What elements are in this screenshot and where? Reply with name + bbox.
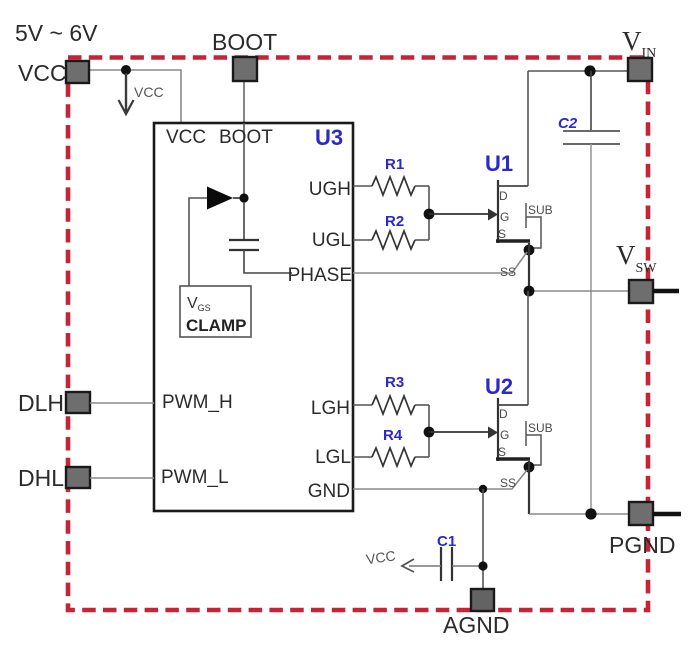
svg-text:U2: U2 <box>485 374 513 399</box>
wire DLH to U3 <box>90 402 154 404</box>
resistor R3 <box>372 374 429 414</box>
svg-text:SS: SS <box>500 476 516 490</box>
pad VCC <box>66 61 89 83</box>
node VCC junction <box>121 65 131 75</box>
svg-text:UGL: UGL <box>312 230 351 251</box>
svg-text:C2: C2 <box>558 115 578 132</box>
pad VIN <box>628 58 652 81</box>
svg-text:GND: GND <box>308 481 350 502</box>
power arrow VCC (down) <box>119 73 164 114</box>
wire UGL lead <box>353 239 372 241</box>
pad DHL <box>66 467 90 488</box>
svg-text:BOOT: BOOT <box>219 127 273 148</box>
svg-text:SUB: SUB <box>528 203 553 217</box>
wire PHASE to SS <box>353 252 527 273</box>
substrate bracket U2 SUB <box>526 421 553 465</box>
svg-text:G: G <box>500 428 509 442</box>
svg-text:C1: C1 <box>437 533 456 550</box>
pad AGND <box>471 589 494 611</box>
svg-text:PHASE: PHASE <box>288 265 352 286</box>
pad DLH <box>66 392 90 413</box>
svg-text:S: S <box>498 445 506 459</box>
node gate U1 junction <box>424 209 435 220</box>
wire U1 source to VSW <box>528 243 530 291</box>
wire GND to SS (U2) <box>353 470 527 489</box>
svg-text:PWM_H: PWM_H <box>162 392 233 413</box>
svg-text:VCC: VCC <box>166 127 206 148</box>
svg-text:BOOT: BOOT <box>212 29 277 55</box>
capacitor C2 <box>558 71 620 514</box>
pad VSW <box>629 280 653 303</box>
wire R3-R4 join vertical <box>428 405 430 457</box>
svg-text:AGND: AGND <box>443 612 509 638</box>
svg-text:R1: R1 <box>385 156 404 173</box>
svg-text:CLAMP: CLAMP <box>186 316 246 335</box>
resistor R2 <box>372 213 429 249</box>
svg-text:R2: R2 <box>385 213 404 230</box>
svg-text:PGND: PGND <box>609 532 675 558</box>
svg-text:PWM_L: PWM_L <box>161 467 229 488</box>
svg-text:G: G <box>500 210 509 224</box>
svg-text:5V ~ 6V: 5V ~ 6V <box>15 20 98 46</box>
svg-text:D: D <box>499 189 508 203</box>
boundary: red dashed board outline <box>68 58 648 611</box>
svg-text:DHL: DHL <box>18 465 64 491</box>
capacitor C1 <box>409 533 483 581</box>
wire BOOT internal <box>243 123 245 198</box>
wire triangle input <box>189 198 207 286</box>
wire LGL lead <box>353 456 372 458</box>
wire VIN rail <box>528 70 629 72</box>
node PGND junction <box>585 508 596 519</box>
transistor U1 (NMOS) <box>485 151 530 243</box>
resistor R1 <box>372 156 429 195</box>
svg-text:R3: R3 <box>385 374 404 391</box>
node U2 source junction <box>524 462 535 473</box>
svg-text:LGH: LGH <box>311 398 350 419</box>
wire LGH lead <box>353 404 372 406</box>
wire U2 drain up to VSW <box>527 291 529 405</box>
op-amp U3 block outline <box>154 123 353 511</box>
node VSW junction <box>524 286 535 297</box>
wire VSW stub <box>653 289 679 293</box>
transistor U2 (NMOS) <box>485 374 530 461</box>
node U1 source junction <box>524 245 535 256</box>
wire gate U1 <box>429 213 489 215</box>
wire BOOT pad to U3 <box>243 81 245 123</box>
wire U2 source to PGND rail <box>528 461 530 514</box>
node C1 junction <box>478 561 487 570</box>
block VGS CLAMP <box>180 286 251 337</box>
wire DHL to U3 <box>90 477 154 479</box>
node GND-AGND junction <box>479 485 487 493</box>
power arrow VCC (left, at C1) <box>365 547 414 572</box>
svg-text:SS: SS <box>500 265 516 279</box>
node boot-cap junction <box>239 193 248 202</box>
node gate U2 junction <box>424 427 435 438</box>
svg-text:U1: U1 <box>485 151 513 176</box>
svg-text:SUB: SUB <box>528 421 553 435</box>
svg-text:DLH: DLH <box>18 390 64 416</box>
wire PGND rail <box>529 513 629 515</box>
svg-text:UGH: UGH <box>309 179 351 200</box>
wire R1-R2 join vertical <box>428 186 430 240</box>
svg-text:R4: R4 <box>383 427 403 444</box>
substrate bracket U1 SUB <box>526 203 553 248</box>
svg-text:LGL: LGL <box>315 447 351 468</box>
svg-text:VCC: VCC <box>134 84 164 100</box>
pad BOOT <box>233 57 257 81</box>
resistor R4 <box>372 427 429 466</box>
node VIN junction <box>584 65 595 76</box>
wire VSW rail <box>529 290 629 292</box>
wire U1 drain to VIN rail <box>527 71 529 186</box>
wire VCC pad to U3 <box>89 70 181 123</box>
buffer triangle U3 driver <box>207 187 233 210</box>
svg-text:U3: U3 <box>315 125 343 150</box>
svg-text:S: S <box>498 227 506 241</box>
capacitor internal bootstrap <box>229 202 292 273</box>
svg-text:VCC: VCC <box>18 60 67 86</box>
wire PGND stub <box>653 512 681 516</box>
wire gate U2 <box>429 431 489 433</box>
wire UGH lead <box>353 185 372 187</box>
pad PGND <box>629 502 653 525</box>
svg-text:D: D <box>499 407 508 421</box>
wire AGND vertical <box>482 489 484 589</box>
